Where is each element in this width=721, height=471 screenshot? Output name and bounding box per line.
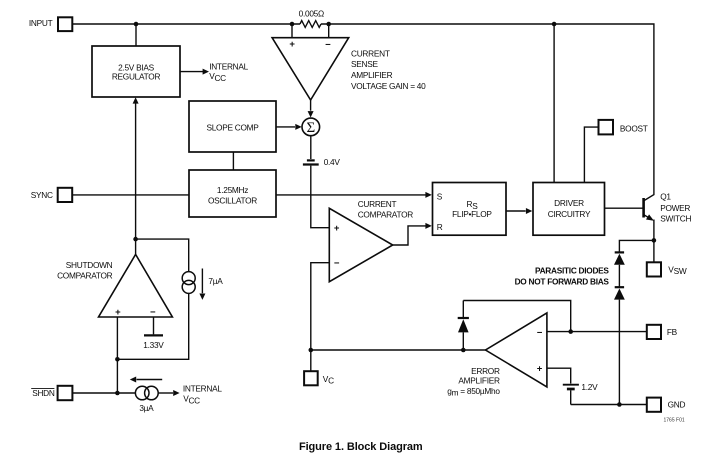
wire error amp minus to FB bbox=[547, 331, 647, 333]
svg-text:1.33V: 1.33V bbox=[143, 340, 164, 350]
svg-text:AMPLIFIER: AMPLIFIER bbox=[351, 70, 393, 80]
node emitter junction bbox=[652, 238, 657, 243]
wire battery to comparator plus bbox=[311, 166, 330, 228]
wire shutdown node to regulator with up arrow bbox=[135, 104, 137, 240]
svg-text:FLIP•FLOP: FLIP•FLOP bbox=[452, 209, 492, 219]
svg-text:1.2V: 1.2V bbox=[581, 382, 598, 392]
wire vc line to error amp bbox=[311, 349, 486, 351]
pad SYNC bbox=[58, 188, 72, 202]
wire sense resistor tap right bbox=[328, 24, 330, 38]
wire slope comp to oscillator bbox=[232, 152, 234, 170]
svg-text:GND: GND bbox=[668, 400, 686, 410]
wire sync to oscillator bbox=[72, 194, 189, 196]
svg-text:SHDN: SHDN bbox=[32, 388, 55, 398]
svg-text:ERROR: ERROR bbox=[471, 366, 500, 376]
node shdn junction bbox=[115, 391, 120, 396]
node feedback junction bbox=[568, 329, 573, 334]
node vc junction bbox=[309, 348, 314, 353]
battery 0.4V bbox=[310, 136, 312, 159]
wire rail to bias regulator bbox=[135, 24, 137, 46]
wire comparator output to flip-flop R with arrow bbox=[393, 226, 426, 245]
svg-text:REGULATOR: REGULATOR bbox=[112, 71, 161, 81]
svg-text:VCC: VCC bbox=[209, 71, 226, 83]
op-amp shutdown comparator bbox=[99, 254, 173, 317]
svg-text:CIRCUITRY: CIRCUITRY bbox=[548, 209, 591, 219]
svg-text:0.4V: 0.4V bbox=[324, 157, 341, 167]
wire between diodes bbox=[618, 265, 620, 287]
block 1.25MHz oscillator bbox=[189, 170, 276, 217]
node resistor right bbox=[326, 22, 331, 27]
svg-text:INTERNAL: INTERNAL bbox=[183, 384, 222, 394]
wire oscillator to flip-flop S with arrow bbox=[276, 194, 426, 196]
svg-text:−: − bbox=[325, 39, 331, 50]
svg-text:VCC: VCC bbox=[183, 394, 200, 406]
svg-text:OSCILLATOR: OSCILLATOR bbox=[208, 196, 257, 206]
wire plus input down to shdn line bbox=[116, 317, 118, 393]
svg-text:FB: FB bbox=[667, 327, 678, 337]
pad INPUT bbox=[58, 17, 72, 31]
svg-text:BOOST: BOOST bbox=[620, 123, 648, 133]
svg-text:POWER: POWER bbox=[660, 203, 690, 213]
node resistor left bbox=[290, 22, 295, 27]
wire shdn to 3uA source bbox=[72, 392, 135, 394]
pad VSW bbox=[647, 262, 661, 276]
svg-text:R: R bbox=[437, 222, 443, 232]
pad GND bbox=[647, 398, 661, 412]
svg-text:CURRENT: CURRENT bbox=[351, 48, 390, 58]
arrow regulator to internal vcc bbox=[180, 71, 203, 73]
wire error amp feedback top bbox=[463, 301, 570, 332]
block rs flip-flop bbox=[433, 183, 507, 236]
node diode-gnd junction bbox=[617, 402, 622, 407]
svg-text:S: S bbox=[437, 191, 443, 201]
svg-text:SENSE: SENSE bbox=[351, 59, 378, 69]
svg-text:gm = 850µMho: gm = 850µMho bbox=[447, 386, 500, 398]
svg-text:Q1: Q1 bbox=[660, 192, 671, 202]
wire node to 7uA source bbox=[136, 239, 189, 272]
svg-text:SWITCH: SWITCH bbox=[660, 214, 691, 224]
svg-text:VSW: VSW bbox=[668, 264, 687, 276]
svg-text:CURRENT: CURRENT bbox=[358, 199, 397, 209]
svg-text:AMPLIFIER: AMPLIFIER bbox=[458, 376, 500, 386]
svg-text:Σ: Σ bbox=[307, 120, 316, 136]
op-amp error amplifier bbox=[486, 313, 547, 387]
battery 1.2V bbox=[563, 384, 579, 386]
node driver supply junction bbox=[552, 22, 557, 27]
resistor 0.005ohm bbox=[300, 21, 321, 28]
svg-text:INPUT: INPUT bbox=[29, 18, 53, 28]
svg-text:1765 F01: 1765 F01 bbox=[664, 418, 685, 424]
svg-text:Figure 1. Block Diagram: Figure 1. Block Diagram bbox=[299, 441, 423, 453]
arrow 3uA left bbox=[137, 379, 163, 381]
node clamp-vc junction bbox=[461, 348, 466, 353]
arrow flip-flop to driver bbox=[506, 210, 526, 212]
pad BOOST bbox=[599, 120, 614, 134]
wire apex to node bbox=[135, 239, 137, 254]
svg-text:7µA: 7µA bbox=[208, 276, 223, 286]
diode parasitic lower bbox=[615, 286, 624, 288]
wire rail to driver bbox=[553, 24, 555, 183]
svg-text:DO NOT FORWARD BIAS: DO NOT FORWARD BIAS bbox=[515, 277, 610, 287]
svg-text:SYNC: SYNC bbox=[31, 190, 53, 200]
pad FB bbox=[647, 325, 661, 339]
wire boost to driver bbox=[584, 127, 598, 182]
node shutdown junction bbox=[133, 237, 138, 242]
svg-text:+: + bbox=[289, 39, 295, 50]
pad SHDN bbox=[58, 386, 73, 400]
svg-text:−: − bbox=[334, 258, 340, 269]
arrow sense amp to summer bbox=[310, 100, 312, 111]
arrow 3uA to internal vcc bbox=[158, 392, 173, 394]
block slope comp bbox=[189, 101, 276, 152]
wire 7uA source to corner bbox=[117, 293, 188, 359]
svg-text:+: + bbox=[115, 307, 121, 318]
pad VC bbox=[304, 371, 318, 385]
svg-text:VOLTAGE GAIN = 40: VOLTAGE GAIN = 40 bbox=[351, 81, 426, 91]
arrow 7uA down bbox=[201, 269, 203, 294]
svg-text:+: + bbox=[537, 364, 543, 375]
block driver circuitry bbox=[533, 183, 605, 236]
wire gnd line bbox=[571, 404, 647, 406]
block 2.5V bias regulator bbox=[92, 46, 180, 97]
svg-text:COMPARATOR: COMPARATOR bbox=[57, 270, 113, 280]
transistor Q1 bbox=[605, 207, 644, 209]
svg-text:+: + bbox=[334, 223, 340, 234]
svg-text:−: − bbox=[150, 307, 156, 318]
diode clamp bbox=[462, 301, 464, 318]
battery 1.33V bbox=[153, 317, 155, 334]
svg-text:INTERNAL: INTERNAL bbox=[209, 61, 248, 71]
summer sigma bbox=[302, 118, 320, 136]
svg-text:DRIVER: DRIVER bbox=[554, 198, 584, 208]
wire sense resistor tap left bbox=[291, 24, 293, 38]
svg-text:−: − bbox=[537, 327, 543, 338]
svg-text:VC: VC bbox=[323, 374, 334, 386]
op-amp current comparator bbox=[329, 208, 392, 281]
svg-text:COMPARATOR: COMPARATOR bbox=[358, 209, 414, 219]
wire error amp plus to battery bbox=[547, 368, 571, 383]
node input-bias junction bbox=[134, 22, 139, 27]
svg-text:1.25MHz: 1.25MHz bbox=[217, 185, 248, 195]
wire diodes to gnd line bbox=[618, 300, 620, 405]
node corner junction bbox=[115, 357, 120, 362]
wire input rail right to Q1 collector bbox=[321, 24, 654, 201]
current source 7uA bbox=[182, 272, 195, 285]
op-amp current sense amplifier bbox=[272, 38, 349, 100]
svg-text:SLOPE COMP: SLOPE COMP bbox=[206, 122, 259, 132]
svg-text:PARASITIC DIODES: PARASITIC DIODES bbox=[535, 266, 609, 276]
svg-text:3µA: 3µA bbox=[139, 403, 154, 413]
arrow slope comp to summer bbox=[276, 126, 295, 128]
svg-text:SHUTDOWN: SHUTDOWN bbox=[66, 260, 113, 270]
wire comparator minus to vc pad bbox=[311, 263, 330, 372]
diode parasitic upper bbox=[615, 251, 624, 253]
wire emitter node to parasitic diodes bbox=[619, 240, 654, 252]
current source 3uA bbox=[135, 386, 149, 400]
wire input rail left bbox=[72, 23, 300, 25]
svg-text:0.005Ω: 0.005Ω bbox=[299, 8, 324, 18]
